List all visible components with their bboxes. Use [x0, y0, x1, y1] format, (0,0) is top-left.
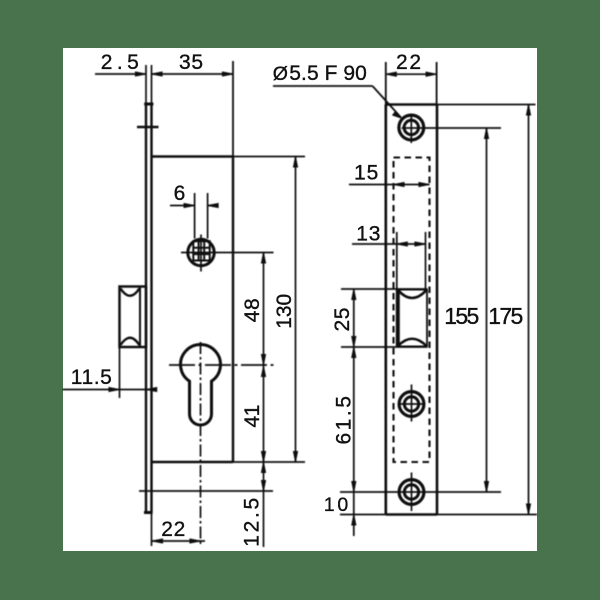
plate bottom edge extensions	[340, 514, 386, 516]
lock case bottom edge	[152, 461, 234, 463]
plate edge extensions up for 22 dim	[385, 62, 387, 105]
faceplate side view right edge	[150, 104, 152, 513]
lock case top edge extension	[233, 156, 305, 158]
faceplate right edge extension below	[151, 513, 153, 547]
lock case bottom edge extension	[233, 461, 305, 463]
48 / 41 dim line	[263, 253, 265, 463]
bottom screw centerline extension	[340, 491, 501, 493]
roller side inner edge	[139, 287, 141, 348]
dashed lock case cutout rect	[394, 158, 430, 463]
svg-text:12.5: 12.5	[241, 498, 264, 547]
svg-text:61.5: 61.5	[333, 396, 356, 445]
plate top edge extension right	[437, 104, 536, 106]
svg-text:25: 25	[331, 308, 354, 332]
35 dim line	[152, 73, 234, 75]
faceplate bottom cap	[144, 511, 153, 514]
svg-text:2.5: 2.5	[101, 51, 139, 74]
25 / 61.5 / 10 dim line	[353, 289, 355, 536]
faceplate front outline	[384, 105, 387, 515]
bottom screw tick / extension line	[139, 490, 273, 492]
15 dim line	[349, 184, 430, 186]
faceplate side view left edge	[145, 104, 147, 513]
spindle horizontal centerline	[181, 252, 274, 254]
svg-text:41: 41	[241, 405, 264, 428]
middle screw hole	[399, 392, 424, 417]
175 dim line	[528, 105, 530, 515]
lock case top edge	[152, 155, 234, 157]
11.5 dim line	[63, 389, 158, 391]
22 dim line top right	[386, 73, 437, 75]
svg-text:155: 155	[444, 303, 479, 329]
svg-text:35: 35	[179, 51, 203, 74]
svg-text:Ø: Ø	[273, 63, 288, 85]
130 dim line	[295, 157, 297, 463]
euro cylinder profile hole	[180, 344, 220, 425]
spindle hole circle	[188, 239, 214, 265]
svg-text:175: 175	[488, 303, 523, 329]
top screw hole	[399, 115, 424, 140]
faceplate extension lines above	[145, 65, 147, 104]
12.5 dim line	[263, 462, 265, 547]
roller bolt side view box	[120, 287, 147, 348]
13 dim line	[352, 243, 426, 245]
svg-text:22: 22	[161, 518, 185, 541]
13 extension lines down to roller	[396, 232, 398, 289]
bottom screw hole	[399, 480, 424, 505]
spindle vertical centerline	[200, 235, 202, 272]
svg-text:11.5: 11.5	[71, 366, 112, 389]
faceplate top cap	[144, 103, 153, 106]
roller extension lines left	[341, 288, 396, 290]
lock case right edge	[232, 157, 234, 463]
svg-text:15: 15	[354, 162, 378, 185]
svg-text:13: 13	[356, 223, 380, 246]
6 dim line left with arrow	[170, 205, 195, 207]
roller top arc	[121, 289, 140, 296]
svg-text:6: 6	[174, 182, 186, 205]
leader line from label to screw hole	[273, 85, 373, 87]
roller bottom arc	[121, 338, 140, 345]
svg-text:48: 48	[241, 298, 264, 322]
cylinder vertical centerline dash-dot	[200, 342, 202, 546]
white drawing sheet	[63, 48, 537, 551]
roller front view	[396, 289, 400, 347]
cylinder horizontal centerline dash-dot	[169, 364, 274, 366]
svg-text:5.5 F 90: 5.5 F 90	[289, 62, 367, 85]
6 dim extension lines	[194, 193, 196, 239]
6 dim line right with arrow	[208, 205, 218, 207]
top screw tick on faceplate	[137, 126, 159, 128]
22 dim line bottom left	[152, 540, 205, 542]
svg-text:130: 130	[273, 294, 296, 329]
lock case right edge extension up	[232, 61, 234, 157]
155 dim line	[486, 128, 488, 492]
2.5 dim line with outside arrows	[95, 73, 146, 75]
roller left edge extension down	[119, 347, 121, 398]
svg-text:22: 22	[396, 51, 421, 74]
spindle hole grid square	[193, 241, 209, 260]
